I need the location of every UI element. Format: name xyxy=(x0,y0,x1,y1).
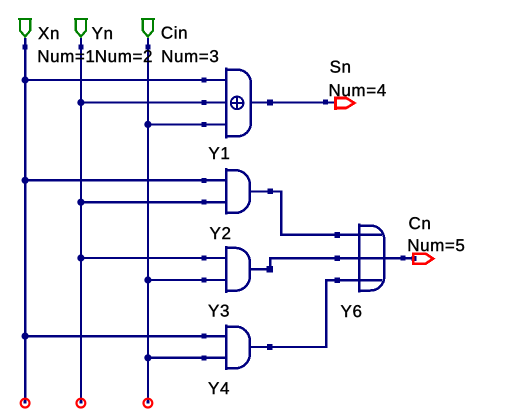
svg-text:Y1: Y1 xyxy=(208,144,230,163)
svg-text:Num=5: Num=5 xyxy=(407,236,465,255)
svg-text:Xn: Xn xyxy=(38,24,60,43)
svg-text:Sn: Sn xyxy=(330,58,352,77)
svg-text:Num=3: Num=3 xyxy=(161,47,219,66)
svg-text:Num=4: Num=4 xyxy=(329,81,387,100)
svg-text:Y6: Y6 xyxy=(341,302,363,321)
svg-text:Y3: Y3 xyxy=(208,302,230,321)
svg-text:Cin: Cin xyxy=(161,24,188,43)
svg-text:Cn: Cn xyxy=(409,214,432,233)
svg-text:Num=1: Num=1 xyxy=(37,47,95,66)
svg-text:Y4: Y4 xyxy=(208,379,230,398)
svg-text:Yn: Yn xyxy=(92,24,114,43)
svg-text:Y2: Y2 xyxy=(210,224,232,243)
svg-text:Num=2: Num=2 xyxy=(95,47,153,66)
